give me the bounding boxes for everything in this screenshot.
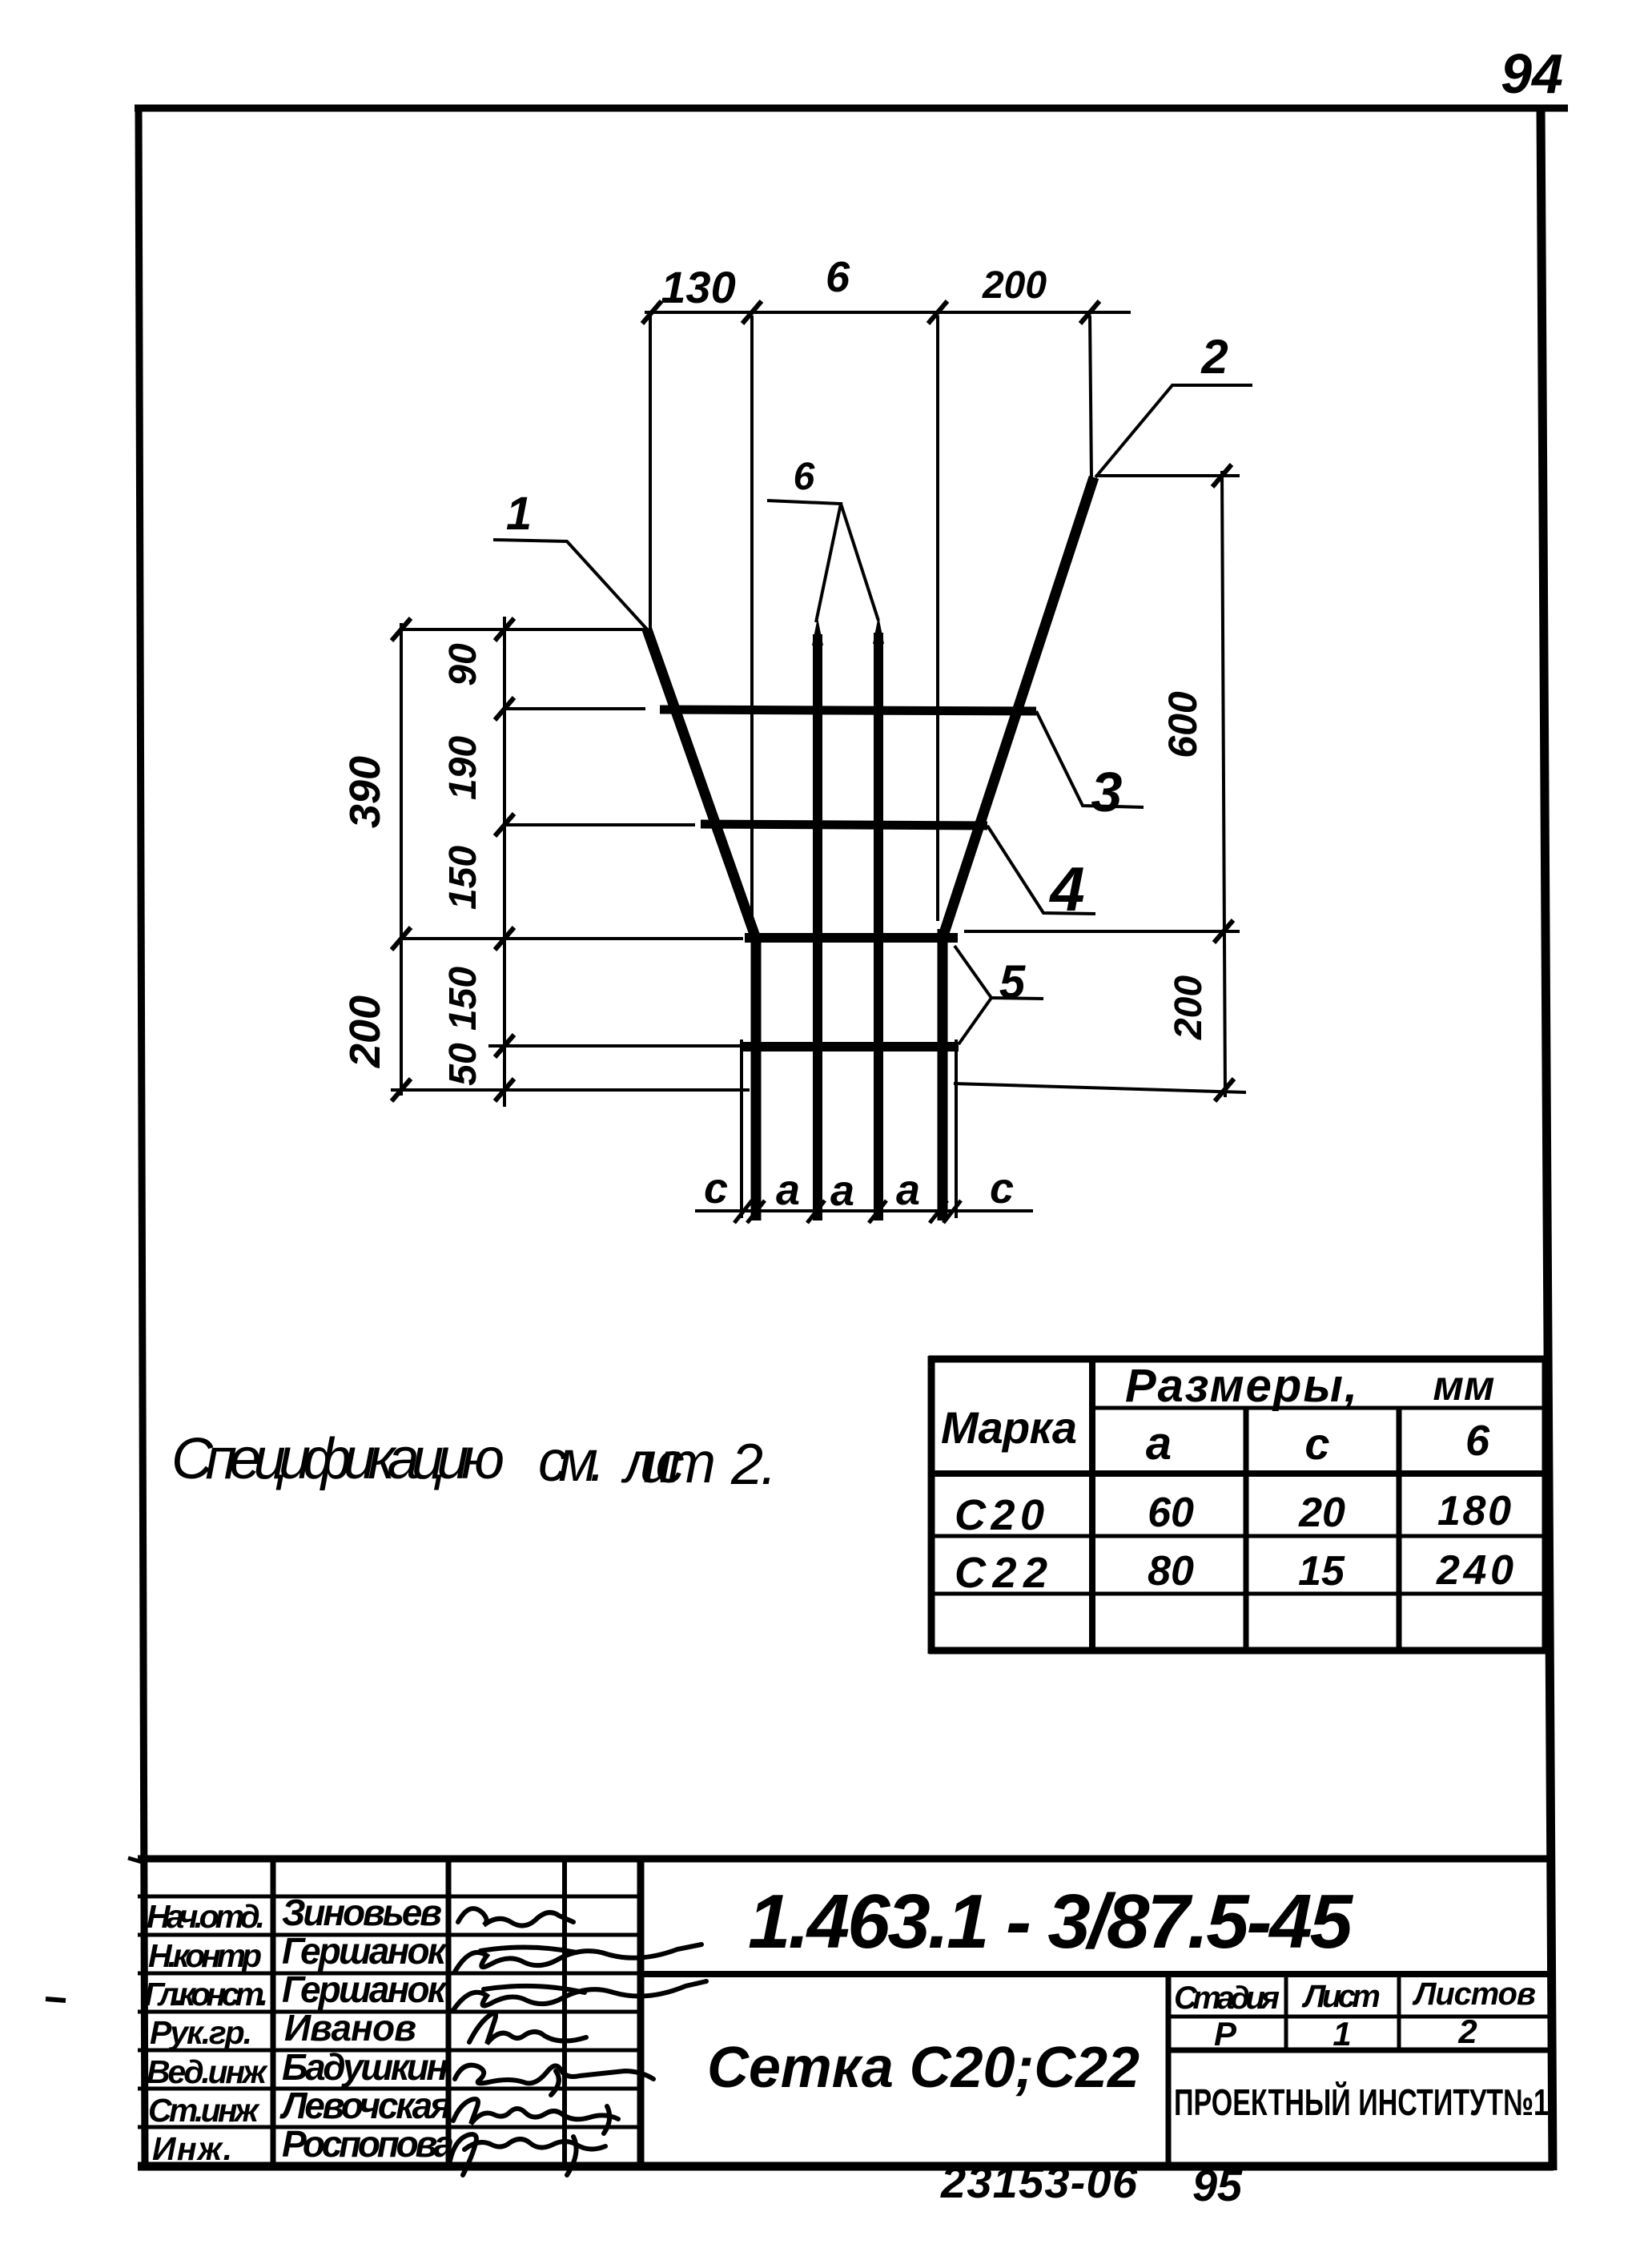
svg-text:Нач.отд.: Нач.отд. <box>147 1898 265 1935</box>
svg-text:ПРОЕКТНЫЙ ИНСТИТУТ№1: ПРОЕКТНЫЙ ИНСТИТУТ№1 <box>1174 2081 1549 2123</box>
svg-text:Левочская: Левочская <box>279 2085 452 2126</box>
bottom tick c2 <box>943 1200 961 1223</box>
bottom tick a1 <box>807 1200 825 1223</box>
svg-text:600: 600 <box>1160 691 1205 758</box>
extension line at bar left <box>750 316 754 927</box>
svg-text:15: 15 <box>1298 1548 1345 1594</box>
top dimension line <box>645 311 1131 314</box>
tick outer top <box>392 618 411 641</box>
svg-text:80: 80 <box>1148 1548 1194 1594</box>
extension line at bar right <box>936 316 939 921</box>
title block row line 2 <box>138 1933 641 1937</box>
svg-text:2: 2 <box>1200 330 1228 384</box>
signature 1 <box>458 1908 573 1925</box>
left inner dim chain 90-190-150-150-50 <box>503 617 506 1107</box>
bottom dimension line <box>695 1209 1033 1212</box>
svg-text:130: 130 <box>661 262 735 312</box>
cross bar 5 fourth <box>742 1042 959 1052</box>
svg-text:Гершанок: Гершанок <box>282 1968 448 2010</box>
size table outer top <box>929 1356 1549 1363</box>
extension line level 150a <box>401 937 743 940</box>
thin outline left of bottom bars <box>740 1039 743 1218</box>
svg-text:мм: мм <box>1433 1363 1495 1409</box>
svg-text:23153-06: 23153-06 <box>940 2157 1138 2207</box>
svg-text:a: a <box>776 1166 800 1214</box>
border frame top <box>135 105 1568 112</box>
callout 3 leader <box>1036 711 1144 807</box>
bottom extension line left <box>391 1088 750 1092</box>
top dim tick 4 <box>1080 301 1099 324</box>
svg-text:c: c <box>990 1164 1014 1212</box>
title block top line <box>138 1856 1553 1863</box>
stamp row underline <box>1168 2048 1553 2053</box>
tick inner 190 <box>495 814 514 836</box>
svg-text:60: 60 <box>1148 1490 1194 1536</box>
svg-text:лист: лист <box>621 1431 716 1495</box>
stamp divider list-listov <box>1397 1974 1401 2050</box>
callout 5 leader underline <box>991 998 1043 999</box>
signature 5 <box>455 2065 653 2095</box>
svg-text:Ст.инж: Ст.инж <box>148 2092 260 2129</box>
tick inner 150a <box>495 927 514 950</box>
svg-text:390: 390 <box>341 756 389 828</box>
svg-text:Сетка C20;C22: Сетка C20;C22 <box>707 2036 1140 2100</box>
cross bar 5 third <box>745 933 958 943</box>
title block divider col3 <box>562 1859 567 2166</box>
svg-text:Размеры,: Размеры, <box>1125 1360 1357 1412</box>
svg-text:240: 240 <box>1436 1547 1513 1594</box>
svg-text:Спецификацию: Спецификацию <box>171 1427 504 1491</box>
tick outer mid <box>392 927 411 950</box>
signature 2 <box>455 1944 701 1972</box>
svg-text:c: c <box>704 1164 728 1212</box>
mesh middle bar right <box>874 633 883 1220</box>
svg-text:Зиновьев: Зиновьев <box>282 1892 442 1933</box>
svg-text:94: 94 <box>1501 42 1563 105</box>
right extension bottom sloped <box>954 1084 1246 1092</box>
svg-text:200: 200 <box>982 264 1047 307</box>
left outer dim chain 390-200 <box>400 623 403 1096</box>
callout 6 leader arm right <box>841 504 878 621</box>
cross bar 3 top <box>660 710 1036 711</box>
stamp divider stadia-list <box>1284 1974 1288 2050</box>
size table header bottom <box>931 1470 1546 1477</box>
svg-text:a: a <box>896 1166 920 1214</box>
title block divider name-stamp <box>1166 1974 1172 2166</box>
callout 4 leader <box>987 826 1095 914</box>
svg-text:2.: 2. <box>730 1433 777 1497</box>
svg-text:150: 150 <box>442 967 484 1031</box>
title block row line 6 <box>138 2087 641 2091</box>
tick inner 90 <box>495 698 514 720</box>
signature 7 <box>450 2134 605 2175</box>
title block row line 7 <box>138 2125 641 2129</box>
title block row line 3 <box>138 1972 641 1976</box>
mesh bar 1 left vertical part <box>751 933 762 1220</box>
cross bar 4 second <box>701 824 987 826</box>
tick right top <box>1212 464 1232 487</box>
size table divider marka <box>1089 1359 1095 1651</box>
bottom tick c1b <box>747 1200 765 1223</box>
svg-text:см.: см. <box>538 1430 605 1494</box>
svg-text:C22: C22 <box>955 1549 1047 1597</box>
mesh middle bar right tip <box>873 616 884 644</box>
bottom tick a2 <box>869 1200 886 1223</box>
svg-text:6: 6 <box>794 456 815 498</box>
title block row line 4 <box>138 2010 641 2014</box>
svg-text:90: 90 <box>442 643 484 686</box>
extension line level 150b <box>488 1044 742 1048</box>
size table row line 2 <box>931 1592 1546 1596</box>
svg-text:150: 150 <box>442 846 484 910</box>
size table outer bottom <box>929 1647 1549 1655</box>
thin outline right of bottom bars <box>955 1039 958 1218</box>
bottom tick c1a <box>734 1200 752 1223</box>
svg-text:6: 6 <box>1465 1417 1490 1465</box>
callout 5 leader <box>955 946 991 1044</box>
right extension top <box>1095 474 1240 477</box>
svg-text:20: 20 <box>1298 1490 1345 1536</box>
title block row line 5 <box>138 2049 641 2053</box>
svg-text:Гл.конст.: Гл.конст. <box>144 1976 268 2013</box>
size table divider c-b <box>1397 1408 1402 1651</box>
tick right mid <box>1214 920 1233 943</box>
svg-text:c: c <box>1304 1418 1329 1469</box>
callout 2 leader <box>1095 385 1252 477</box>
tick inner 50 <box>495 1079 514 1101</box>
stray mark left margin <box>46 1999 66 2001</box>
svg-text:Гершанок: Гершанок <box>282 1930 448 1972</box>
signature 6 <box>453 2099 618 2133</box>
right extension mid <box>964 930 1240 933</box>
title block divider col4 main <box>637 1859 645 2166</box>
svg-text:180: 180 <box>1437 1488 1511 1534</box>
extension line level 90 <box>504 707 645 710</box>
svg-text:Вед.инж: Вед.инж <box>147 2053 268 2090</box>
svg-text:Листов: Листов <box>1412 1976 1536 2012</box>
svg-text:Инж.: Инж. <box>152 2130 232 2167</box>
size table outer left <box>928 1356 935 1654</box>
tick inner 150b <box>495 1035 514 1057</box>
signature 4 <box>469 2013 586 2044</box>
mesh middle bar left tip <box>812 617 823 645</box>
svg-text:190: 190 <box>442 736 484 800</box>
svg-text:Бадушкин: Бадушкин <box>282 2046 448 2088</box>
callout 6 leader <box>767 501 841 622</box>
size table row line 1 <box>931 1534 1546 1538</box>
svg-text:200: 200 <box>1168 975 1210 1040</box>
svg-text:50: 50 <box>442 1043 484 1086</box>
svg-text:2: 2 <box>1457 2013 1477 2050</box>
border frame bottom <box>138 2162 1554 2171</box>
svg-text:Иванов: Иванов <box>284 2007 416 2049</box>
extension line level 190 <box>504 823 695 826</box>
size table divider a-c <box>1244 1408 1249 1651</box>
size table header underline <box>1092 1406 1546 1410</box>
svg-text:200: 200 <box>341 995 389 1068</box>
svg-text:P: P <box>1214 2015 1237 2053</box>
svg-text:Рук.гр.: Рук.гр. <box>150 2014 252 2051</box>
top dim tick 1 <box>642 301 661 324</box>
svg-text:Роспопова: Роспопова <box>282 2123 454 2165</box>
callout 1 leader <box>493 540 649 631</box>
svg-text:Лист: Лист <box>1301 1979 1381 2014</box>
mesh bar 1 left slanted edge <box>647 629 756 939</box>
mesh bar 2 right slanted edge <box>943 477 1094 935</box>
signature 3 <box>453 1981 706 2010</box>
svg-text:Марка: Марка <box>941 1402 1077 1453</box>
top dim tick 3 <box>928 301 947 324</box>
tick outer bottom <box>392 1079 411 1101</box>
border frame right <box>1541 105 1553 2170</box>
title block row line 1 <box>138 1895 641 1899</box>
svg-text:a: a <box>1146 1417 1172 1470</box>
size table outer right <box>1542 1356 1550 1654</box>
svg-text:C20: C20 <box>955 1491 1044 1539</box>
title block divider col1 <box>271 1859 276 2166</box>
extension line at 130 left <box>649 316 652 629</box>
right dim chain 600-200 <box>1222 471 1225 1097</box>
extension line at 200 right <box>1090 316 1091 481</box>
tick inner top <box>495 618 514 641</box>
mesh middle bar left <box>813 634 822 1220</box>
bottom tick a3 <box>930 1200 947 1223</box>
top dim tick 2 <box>742 301 762 324</box>
svg-text:95: 95 <box>1192 2160 1243 2210</box>
border frame left <box>139 105 145 2169</box>
svg-text:a: a <box>830 1167 854 1215</box>
title block number box bottom <box>641 1971 1553 1977</box>
svg-text:1: 1 <box>506 488 532 540</box>
svg-text:5: 5 <box>999 956 1026 1008</box>
svg-text:1.463.1 - 3/87.5-45: 1.463.1 - 3/87.5-45 <box>748 1879 1354 1964</box>
mesh bar 2 right vertical part <box>938 929 948 1220</box>
svg-text:Стадия: Стадия <box>1174 1980 1280 2016</box>
svg-text:4: 4 <box>1048 854 1084 924</box>
title block divider col2 <box>446 1859 452 2166</box>
tick right bottom <box>1215 1079 1234 1101</box>
stamp header underline <box>1168 2015 1553 2019</box>
svg-text:Н.контр: Н.контр <box>148 1937 262 1974</box>
svg-text:3: 3 <box>1091 761 1123 823</box>
svg-text:6: 6 <box>826 253 850 301</box>
mesh top extension line <box>401 628 645 631</box>
stray mark left border tick <box>128 1858 144 1863</box>
svg-text:1: 1 <box>1332 2015 1351 2053</box>
